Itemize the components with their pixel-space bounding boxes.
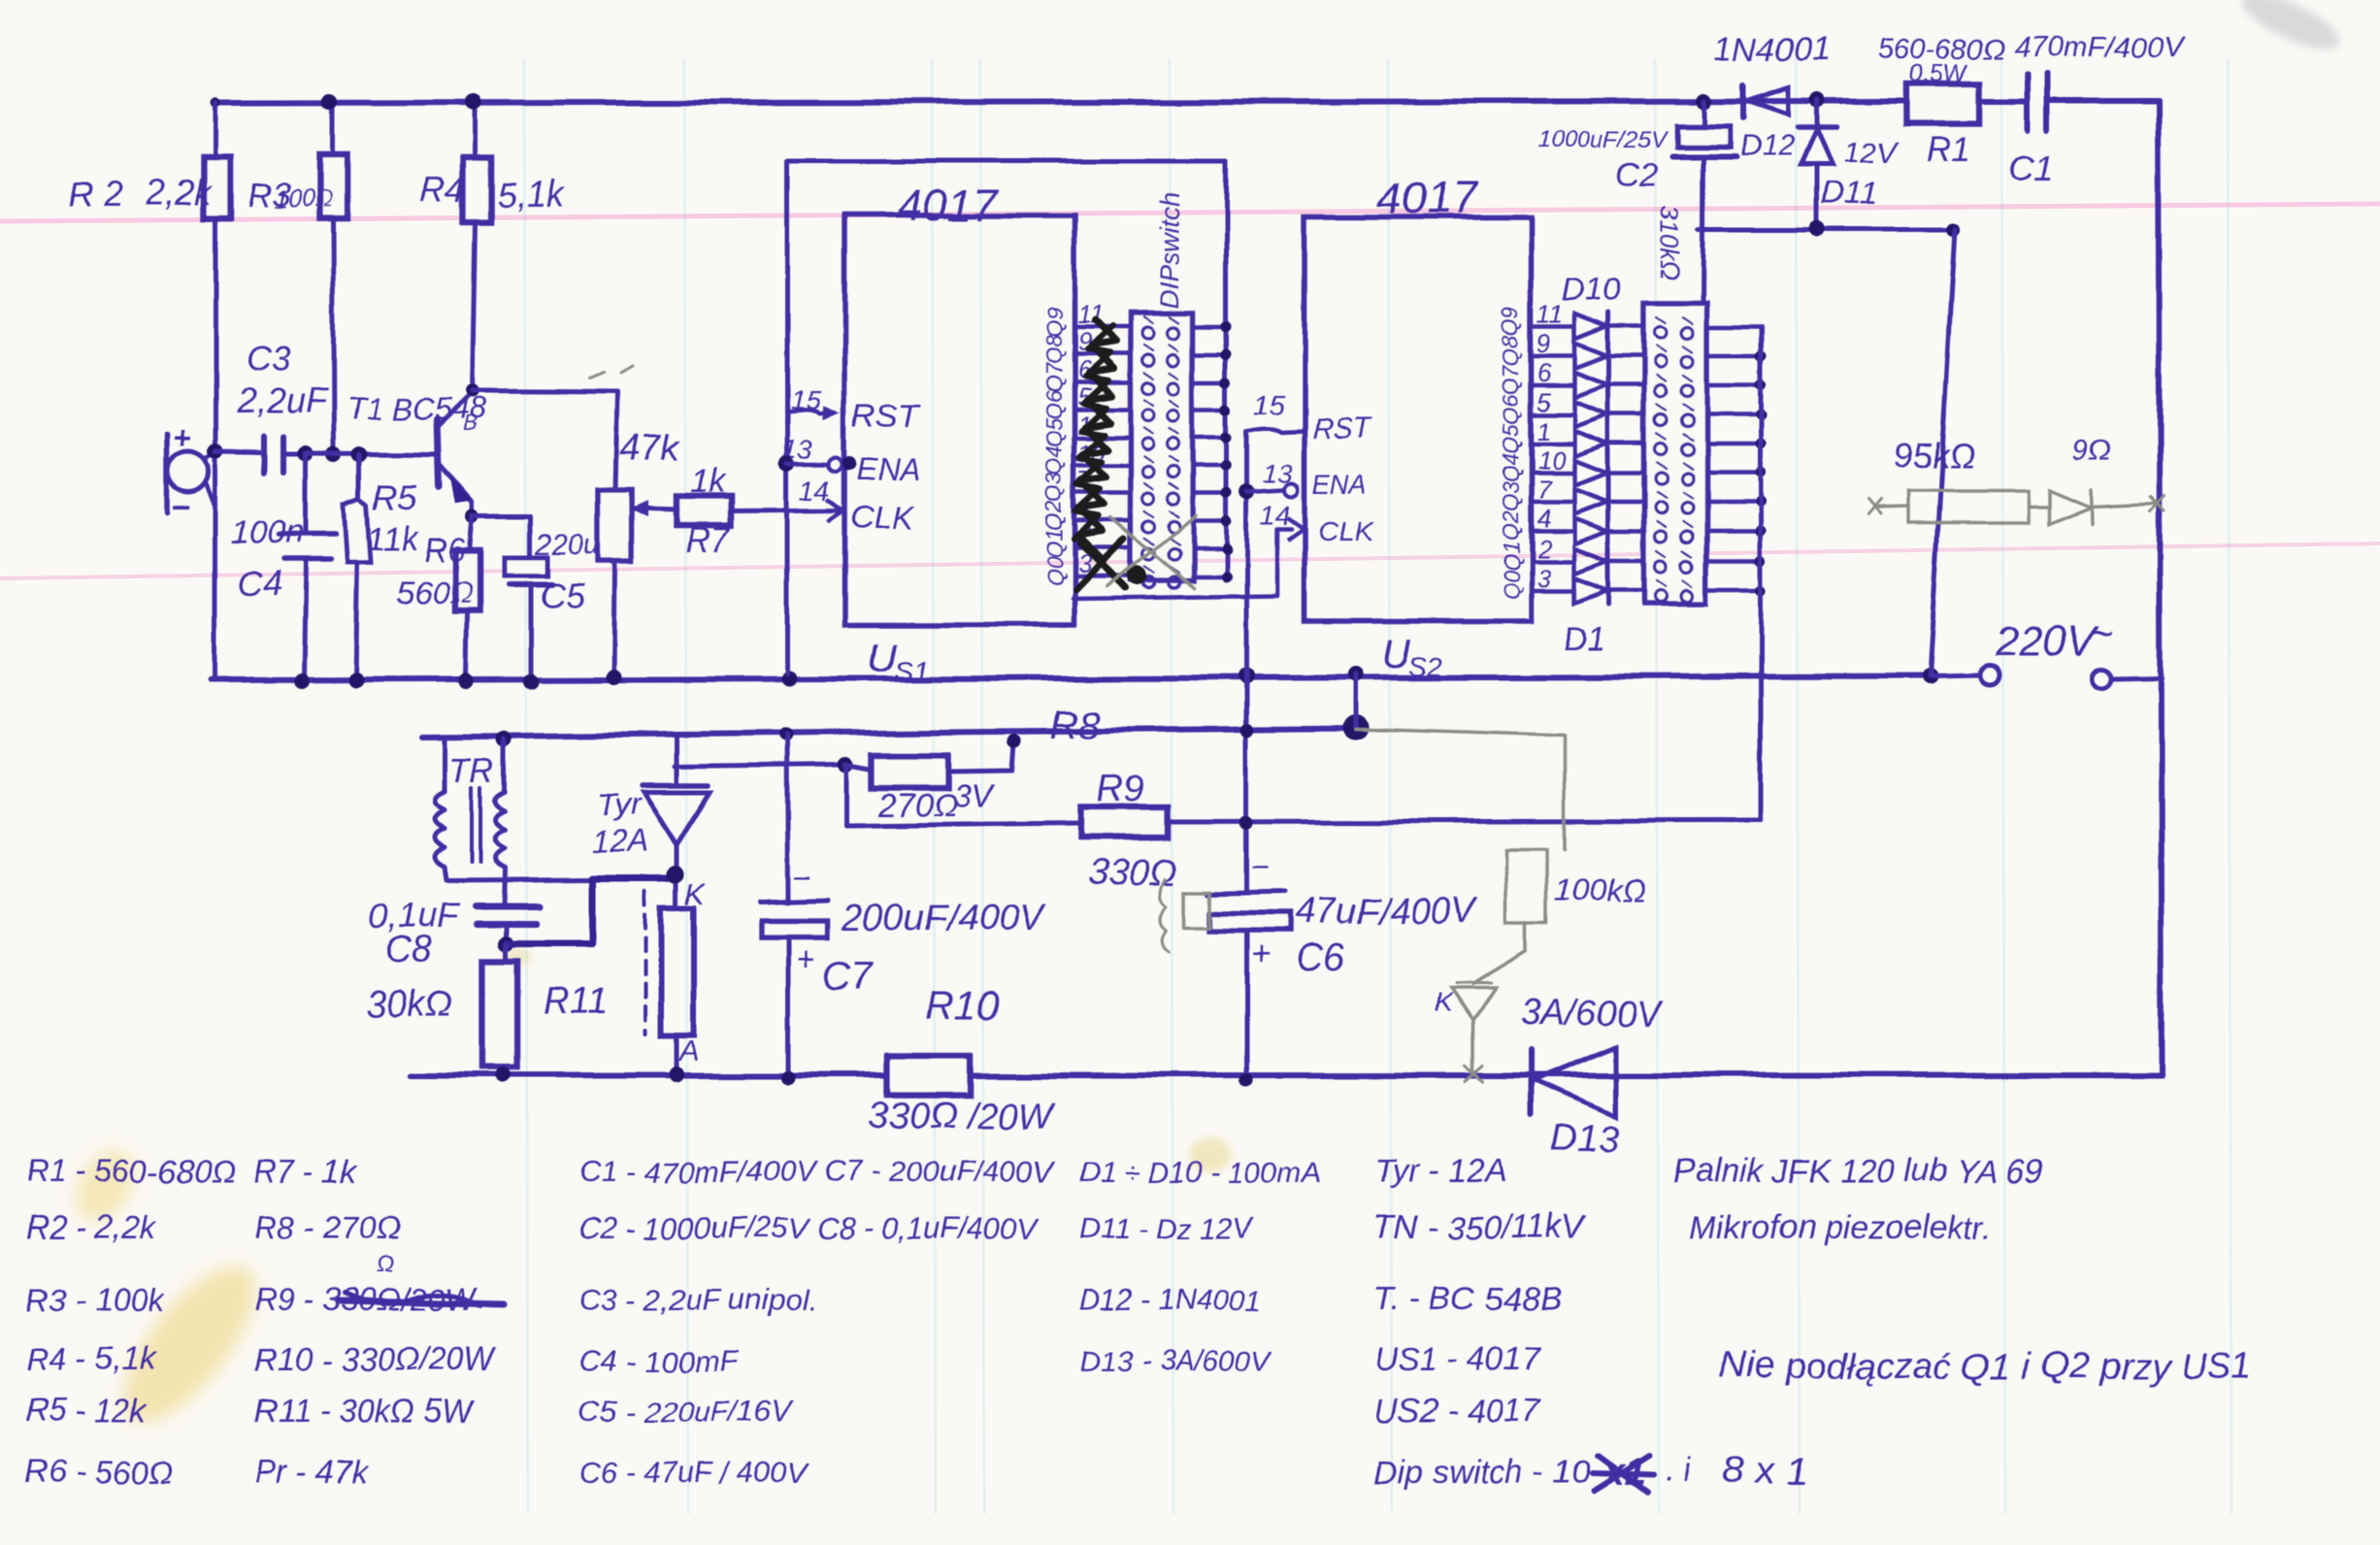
dashed gate line [644, 891, 647, 1035]
svg-text:TN - 350/11kV: TN - 350/11kV [1373, 1209, 1587, 1246]
svg-text:200uF/400V: 200uF/400V [842, 898, 1047, 938]
wire: top supply bus [215, 101, 1905, 103]
diode D3 [1574, 518, 1607, 543]
svg-text:−: − [1250, 850, 1269, 885]
svg-text:R1 - 560-680Ω: R1 - 560-680Ω [25, 1153, 237, 1189]
svg-text:C2 - 1000uF/25V C8 - 0,1uF/40: C2 - 1000uF/25V C8 - 0,1uF/400V [578, 1211, 1040, 1245]
svg-text:C3 - 2,2uF unipol.: C3 - 2,2uF unipol. [578, 1283, 817, 1317]
wire to 220V terminal [1930, 675, 1980, 676]
node base wire [298, 445, 314, 461]
U1 pin 10 wire [1074, 464, 1131, 469]
potentiometer Pr 47k [598, 490, 631, 561]
svg-text:30kΩ: 30kΩ [365, 983, 452, 1024]
svg-text:1000uF/25V: 1000uF/25V [1538, 127, 1668, 153]
diode D2 [1574, 548, 1607, 574]
svg-text:D12: D12 [1739, 128, 1795, 162]
pencil marks near pot [588, 373, 604, 378]
diode D10 [1574, 314, 1607, 340]
resistor R11 [504, 943, 509, 961]
svg-text:Pr - 47k: Pr - 47k [254, 1454, 368, 1490]
svg-text:330Ω: 330Ω [1087, 853, 1176, 894]
svg-text:B: B [463, 411, 478, 436]
svg-text:R11: R11 [544, 981, 609, 1022]
wire zener bottom node [1699, 228, 1955, 233]
black ink scribbles over U1 pin numbers [1077, 320, 1116, 559]
capacitor C5 [473, 515, 530, 520]
svg-text:R3 - 100k: R3 - 100k [25, 1281, 166, 1317]
U2 pin 9 wire [1531, 354, 1572, 359]
svg-text:11k: 11k [367, 520, 419, 557]
svg-text:12A: 12A [592, 824, 647, 859]
TR core [470, 788, 474, 862]
diode D9 [1574, 344, 1607, 369]
svg-text:Q4: Q4 [1041, 445, 1067, 476]
svg-text:12V: 12V [1844, 136, 1899, 168]
svg-text:R1: R1 [1926, 129, 1970, 169]
resistor R2 [204, 157, 231, 217]
resistor R8 270ohm [845, 765, 872, 770]
pencil capacitor sketch near C6 [1184, 892, 1210, 928]
pencil wire to 100k [1356, 729, 1565, 849]
svg-text:R5: R5 [373, 477, 418, 516]
U1 pin 1 wire [1074, 436, 1131, 441]
svg-text:R7 - 1k: R7 - 1k [254, 1153, 359, 1189]
svg-text:0,5W: 0,5W [1908, 58, 1969, 87]
svg-text:C6: C6 [1295, 937, 1345, 979]
capacitor C1 [2025, 74, 2031, 130]
svg-text:Q0: Q0 [1498, 570, 1523, 600]
svg-text:7: 7 [1537, 475, 1552, 504]
U1 pin 9 wire [1074, 352, 1131, 357]
svg-text:C2: C2 [1615, 157, 1658, 194]
svg-text:14: 14 [1260, 500, 1290, 530]
wire down to 220V node [1930, 230, 1955, 676]
capacitor C8 [476, 904, 540, 910]
svg-text:R5 - 12k: R5 - 12k [25, 1393, 148, 1429]
svg-text:3V: 3V [953, 778, 997, 815]
svg-text:S1: S1 [895, 655, 928, 685]
U1 pin 5 wire [1074, 408, 1131, 412]
svg-text:D12 - 1N4001: D12 - 1N4001 [1079, 1285, 1261, 1317]
svg-text:D13 - 3A/600V: D13 - 3A/600V [1079, 1345, 1273, 1377]
svg-text:C7: C7 [823, 954, 875, 997]
svg-text:4: 4 [1537, 504, 1550, 533]
svg-text:U: U [1382, 631, 1412, 676]
svg-text:5: 5 [1537, 387, 1551, 416]
svg-text:R10: R10 [925, 982, 1001, 1028]
svg-text:R6: R6 [423, 532, 466, 569]
svg-text:Q3: Q3 [1498, 481, 1523, 511]
svg-text:RST: RST [852, 398, 920, 435]
node junction on ground bus at 366 [347, 673, 363, 688]
IC U1 4017 body [844, 215, 1074, 625]
node junction on ground bus at 311 [294, 674, 310, 689]
svg-text:2: 2 [1536, 534, 1551, 563]
wire: mid ground bus [212, 676, 1930, 680]
svg-text:3A/600V: 3A/600V [1520, 993, 1665, 1034]
svg-text:~: ~ [2089, 610, 2114, 658]
svg-text:C3: C3 [247, 339, 291, 378]
svg-text:Q5: Q5 [1498, 423, 1523, 453]
svg-text:Q3: Q3 [1041, 473, 1067, 503]
U1 pin 3 wire [1074, 575, 1131, 579]
zener D11 12V [1815, 100, 1820, 127]
svg-text:100Ω: 100Ω [274, 186, 333, 214]
U1 pin 4 wire [1074, 519, 1131, 524]
svg-text:560Ω: 560Ω [396, 575, 474, 610]
svg-text:+: + [173, 420, 191, 455]
wire: left vertical (mic branch) [214, 103, 218, 157]
svg-text:47k: 47k [619, 428, 680, 469]
svg-text:RST: RST [1312, 413, 1373, 445]
svg-text:R 2: R 2 [68, 174, 122, 214]
U2 pin 1 wire [1531, 442, 1572, 446]
cathode box [661, 907, 694, 1035]
U2 pin 2 wire [1531, 559, 1572, 564]
svg-text:Q8: Q8 [1041, 334, 1067, 364]
svg-text:Tyr - 12A: Tyr - 12A [1373, 1153, 1506, 1190]
U1 pin 2 wire [1074, 546, 1131, 551]
svg-text:C8: C8 [384, 930, 432, 970]
svg-text:R10 - 330Ω/20W: R10 - 330Ω/20W [254, 1341, 497, 1377]
capacitor C3 [215, 451, 264, 452]
svg-text:T. - BC 548B: T. - BC 548B [1373, 1281, 1561, 1318]
svg-text:47uF/400V: 47uF/400V [1295, 892, 1479, 933]
svg-text:Q6: Q6 [1041, 389, 1067, 419]
svg-text:K: K [1435, 987, 1454, 1017]
diode D7 [1574, 402, 1607, 427]
svg-text:9Ω: 9Ω [2073, 435, 2112, 467]
svg-text:D10: D10 [1561, 272, 1621, 309]
svg-text:D13: D13 [1551, 1119, 1619, 1160]
svg-text:R4 - 5,1k: R4 - 5,1k [25, 1341, 156, 1377]
node junction on ground bus at 813 [781, 671, 797, 686]
svg-text:C4: C4 [237, 564, 281, 604]
svg-text:470mF/400V: 470mF/400V [2015, 31, 2185, 63]
resistor R6 [470, 517, 473, 550]
capacitor C4 [304, 453, 309, 535]
svg-text:Q6: Q6 [1498, 394, 1523, 424]
svg-text:R4: R4 [420, 169, 465, 209]
bold junction node [1343, 714, 1369, 740]
pencil X over DIP1 lower corner [1107, 516, 1196, 588]
svg-text:+: + [1250, 937, 1270, 973]
diode D6 [1574, 431, 1607, 456]
node junction on ground bus at 1284 [1239, 669, 1254, 684]
thyristor Tyr 12A [675, 734, 679, 783]
svg-text:−: − [171, 489, 190, 526]
U2 pin 4 wire [1531, 529, 1572, 534]
strikethrough on R9 row [340, 1300, 505, 1304]
microphone MIC [164, 435, 170, 512]
wire thyristor to R8 node [675, 765, 845, 767]
svg-text:Q9: Q9 [1498, 307, 1523, 337]
svg-text:D11 - Dz 12V: D11 - Dz 12V [1079, 1213, 1255, 1245]
svg-text:ENA: ENA [856, 451, 920, 486]
svg-text:DIPswitch: DIPswitch [1155, 192, 1184, 309]
svg-text:Q1: Q1 [1041, 528, 1067, 558]
diode D1 [1574, 577, 1607, 603]
svg-text:Q2: Q2 [1041, 501, 1067, 531]
svg-text:TR: TR [448, 750, 495, 790]
svg-text:6: 6 [1537, 358, 1551, 387]
svg-text:CLK: CLK [850, 499, 915, 536]
svg-text:R2 - 2,2k: R2 - 2,2k [25, 1209, 156, 1245]
svg-text:100kΩ: 100kΩ [1555, 872, 1646, 907]
node junction on ground bus at 481 [459, 674, 475, 689]
svg-text:4017: 4017 [899, 180, 1000, 230]
IC U2 4017 body [1305, 217, 1531, 621]
svg-text:US2 - 4017: US2 - 4017 [1373, 1393, 1541, 1430]
svg-text:R9: R9 [1097, 770, 1144, 810]
svg-text:Q8: Q8 [1498, 336, 1523, 366]
node junction on ground bus at 547 [523, 674, 539, 689]
svg-text:Tyr: Tyr [598, 787, 642, 822]
svg-text:Mikrofon piezoelektr.: Mikrofon piezoelektr. [1689, 1209, 1992, 1246]
svg-text:4017: 4017 [1376, 173, 1477, 223]
svg-text:15: 15 [1254, 389, 1285, 419]
wire U2 RST/ENA feed [1244, 431, 1249, 892]
svg-text:R8: R8 [1050, 704, 1101, 746]
U2 pin 11 wire [1531, 325, 1572, 330]
svg-text:. i: . i [1666, 1452, 1693, 1489]
svg-text:−: − [792, 861, 810, 896]
svg-text:1: 1 [1537, 416, 1550, 445]
U2 pin 6 wire [1531, 383, 1572, 388]
U1 pin 6 wire [1074, 380, 1131, 385]
node top bus junction [1696, 93, 1711, 109]
node junction on ground bus at 1397 [1348, 667, 1364, 682]
svg-text:R8 - 270Ω: R8 - 270Ω [254, 1209, 402, 1245]
svg-text:+: + [796, 941, 815, 978]
svg-text:R6 - 560Ω: R6 - 560Ω [25, 1454, 173, 1490]
svg-text:Ω: Ω [377, 1251, 394, 1277]
wire: bottom bus [411, 1072, 2162, 1078]
svg-text:220V: 220V [1995, 618, 2099, 666]
resistor R5 [357, 454, 362, 499]
U1 pin 11 wire [1074, 325, 1131, 330]
svg-text:C1: C1 [2007, 148, 2055, 189]
svg-text:A: A [678, 1035, 699, 1068]
U2 pin 10 wire [1531, 471, 1572, 476]
node junction on ground bus at 632 [606, 669, 621, 684]
resistor R4 [473, 102, 478, 157]
DIP switch 1 [1131, 313, 1193, 580]
capacitor C2 1000uF/25V [1702, 101, 1706, 126]
svg-text:11: 11 [1537, 300, 1563, 329]
capacitor C6 47uF/400V [1240, 723, 1254, 737]
TR secondary [497, 731, 512, 746]
wire collector to pot [473, 391, 617, 392]
svg-text:D1: D1 [1563, 621, 1604, 658]
diode D5 [1574, 460, 1607, 485]
svg-text:95kΩ: 95kΩ [1893, 436, 1975, 476]
wire: R8 gate bus [421, 728, 1356, 737]
svg-text:C5 - 220uF/16V: C5 - 220uF/16V [578, 1395, 794, 1429]
svg-text:C6 - 47uF / 400V: C6 - 47uF / 400V [578, 1456, 810, 1490]
U1 pin 7 wire [1074, 491, 1131, 496]
U2 pin 5 wire [1531, 412, 1572, 417]
svg-text:Q7: Q7 [1498, 364, 1523, 395]
svg-text:1k: 1k [689, 463, 726, 500]
node emitter [471, 504, 476, 517]
wire C8 to thyristor gate (bold) [506, 878, 668, 943]
svg-text:C1 - 470mF/400V C7 - 200uF/40: C1 - 470mF/400V C7 - 200uF/400V [578, 1155, 1057, 1189]
wire U1 carry to U2 CLK [1073, 529, 1291, 599]
resistor R3 [331, 102, 336, 155]
svg-text:270Ω: 270Ω [876, 788, 958, 825]
node junction on ground bus at 1988 [1922, 669, 1937, 684]
diode D13 [1529, 1050, 1535, 1114]
resistor R10 330R/20W [887, 1056, 970, 1095]
svg-text:330Ω /20W: 330Ω /20W [868, 1096, 1057, 1136]
svg-text:C4 - 100mF: C4 - 100mF [578, 1343, 740, 1377]
DIP switch 2 outputs [1706, 325, 1761, 330]
svg-text:US1 - 4017: US1 - 4017 [1373, 1341, 1541, 1378]
svg-text:Q1: Q1 [1498, 541, 1523, 571]
svg-text:1N4001: 1N4001 [1714, 31, 1830, 68]
svg-text:10: 10 [1537, 445, 1565, 475]
svg-text:Q2: Q2 [1498, 510, 1523, 541]
DIP switch 1 outputs to frame [1193, 325, 1226, 330]
svg-text:Q4: Q4 [1498, 452, 1523, 482]
wire R7 to CLK1 [731, 510, 841, 510]
resistor R7 [648, 509, 676, 510]
svg-text:5,1k: 5,1k [497, 174, 565, 214]
svg-text:Palnik JFK 120 lub YA 69: Palnik JFK 120 lub YA 69 [1673, 1153, 2044, 1190]
U2 pin 7 wire [1531, 500, 1572, 505]
svg-text:310kΩ: 310kΩ [1656, 206, 1685, 279]
svg-text:100n: 100n [231, 514, 305, 551]
svg-text:Q0: Q0 [1041, 556, 1067, 586]
svg-text:R7: R7 [685, 519, 732, 559]
U2 pin 3 wire [1531, 588, 1572, 593]
wire: right vertical bus [2159, 101, 2162, 1075]
svg-text:Q5: Q5 [1041, 417, 1067, 447]
svg-text:9: 9 [1537, 329, 1550, 358]
svg-text:Q7: Q7 [1041, 361, 1067, 392]
svg-text:R11 - 30kΩ 5W: R11 - 30kΩ 5W [254, 1393, 475, 1429]
svg-text:C5: C5 [540, 575, 585, 615]
svg-text:2,2uF: 2,2uF [236, 381, 328, 421]
svg-text:D11: D11 [1821, 175, 1879, 212]
svg-text:14: 14 [800, 475, 830, 505]
wire TR bottom [446, 879, 592, 880]
IC U1 4017 outer frame [787, 159, 1226, 164]
DIP switch 2 [1644, 303, 1706, 604]
svg-text:Nie podłączać Q1 i Q2 przy U: Nie podłączać Q1 i Q2 przy US1 [1720, 1346, 2251, 1387]
resistor R1 [1905, 83, 1980, 123]
diode D4 [1574, 489, 1607, 514]
svg-text:Q9: Q9 [1041, 307, 1067, 337]
svg-text:S2: S2 [1409, 651, 1443, 681]
svg-text:3: 3 [1537, 563, 1551, 592]
svg-text:CLK: CLK [1318, 516, 1376, 548]
svg-text:U: U [868, 635, 898, 680]
diode D8 [1574, 373, 1607, 398]
capacitor C7 200uF/400V [779, 728, 793, 741]
svg-text:8 x 1: 8 x 1 [1724, 1449, 1808, 1492]
svg-text:ENA: ENA [1312, 469, 1369, 499]
wire: R9 output wire [846, 824, 1080, 827]
svg-text:2,2k: 2,2k [145, 172, 214, 212]
wire DIP2 bus down [1759, 327, 1764, 821]
svg-text:Dip switch - 10: Dip switch - 10 [1373, 1454, 1590, 1491]
svg-text:D1 ÷ D10 - 100mA: D1 ÷ D10 - 100mA [1079, 1157, 1320, 1189]
